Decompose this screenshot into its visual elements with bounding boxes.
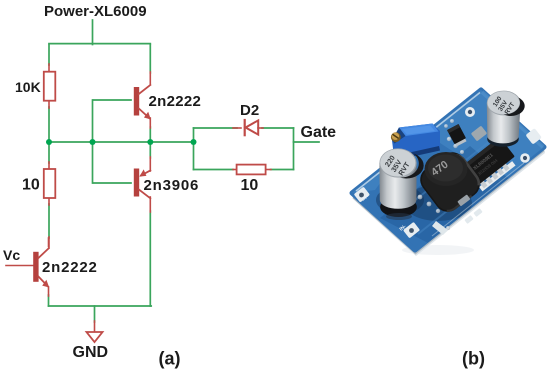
svg-text:2n3906: 2n3906 <box>144 177 200 194</box>
svg-text:2n2222: 2n2222 <box>42 259 98 276</box>
svg-text:10K: 10K <box>15 79 41 95</box>
svg-text:10: 10 <box>22 177 40 194</box>
svg-text:Vc: Vc <box>3 247 20 263</box>
svg-text:GND: GND <box>73 344 109 361</box>
svg-text:10: 10 <box>241 177 259 194</box>
svg-text:D2: D2 <box>240 102 259 119</box>
svg-text:Power-XL6009: Power-XL6009 <box>44 3 147 20</box>
svg-text:Gate: Gate <box>301 124 337 141</box>
svg-text:(a): (a) <box>159 349 181 369</box>
svg-text:2n2222: 2n2222 <box>149 93 202 110</box>
svg-text:(b): (b) <box>462 349 485 369</box>
